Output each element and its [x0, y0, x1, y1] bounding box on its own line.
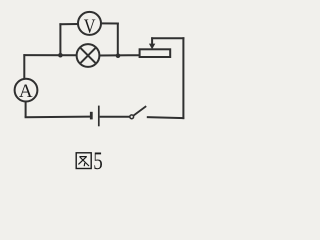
wire voltmeter left horizontal: [59, 23, 78, 25]
wire mid right vertical V-to-node: [117, 23, 119, 56]
caption glyph tu inner dot: [83, 163, 86, 166]
caption glyph tu outer box: [76, 153, 91, 169]
node junction left: [58, 53, 63, 58]
switch S1 pivot: [130, 115, 134, 119]
paper background: [0, 0, 192, 177]
wire top right horizontal: [151, 37, 184, 39]
caption glyph tu inner diagonal left: [78, 157, 86, 165]
label caption 图 5: [76, 153, 91, 169]
wire lamp right horizontal to rheostat: [99, 54, 139, 56]
wire left vertical V-to-node: [59, 23, 61, 55]
lamp L1 circle: [77, 44, 100, 67]
wire voltmeter right horizontal: [100, 22, 119, 24]
svg-text:V: V: [84, 16, 96, 38]
wire right vertical: [182, 37, 184, 119]
wire ammeter bottom vertical: [25, 102, 27, 118]
battery cell positive long plate: [98, 106, 100, 127]
rheostat R1 body: [140, 49, 171, 57]
wire switch to right corner: [147, 117, 184, 118]
caption glyph tu inner diagonal right: [80, 157, 89, 166]
wire ammeter top vertical: [23, 54, 25, 79]
switch S1 lever: [133, 106, 146, 116]
lamp L1 cross diagonal 1: [81, 48, 96, 63]
ammeter A1 circle: [15, 79, 38, 102]
wire rheostat wiper stem: [151, 37, 153, 45]
battery cell negative short plate: [90, 112, 93, 120]
voltmeter V1 circle: [78, 12, 101, 35]
lamp L1 cross diagonal 2: [81, 48, 96, 63]
wire bottom left horizontal to battery: [25, 116, 91, 119]
wire battery to switch: [100, 116, 130, 118]
svg-text:5: 5: [93, 148, 103, 175]
rheostat R1 wiper arrowhead: [149, 44, 155, 50]
caption glyph tu inner stroke top: [79, 156, 86, 158]
node junction right: [116, 53, 121, 58]
svg-text:A: A: [19, 81, 33, 102]
wire ammeter-to-lamp horizontal: [23, 54, 77, 56]
